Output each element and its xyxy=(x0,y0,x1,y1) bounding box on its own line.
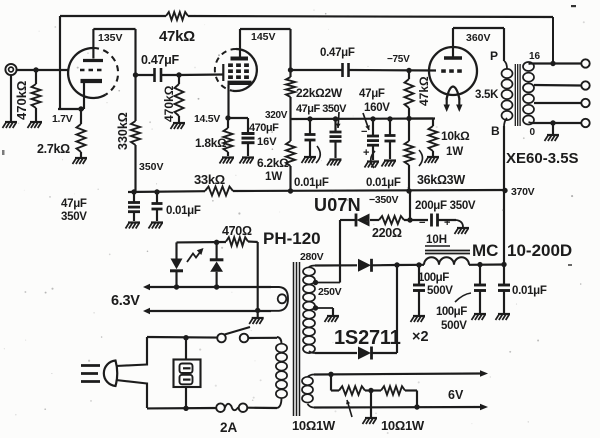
svg-text:47kΩ: 47kΩ xyxy=(159,28,195,45)
svg-text:320V: 320V xyxy=(265,110,288,121)
svg-text:16: 16 xyxy=(529,51,541,62)
svg-text:10H: 10H xyxy=(426,234,447,246)
svg-text:U07N: U07N xyxy=(314,195,361,215)
svg-text:6.2kΩ: 6.2kΩ xyxy=(257,156,289,170)
svg-text:+: + xyxy=(363,147,369,159)
svg-text:280V: 280V xyxy=(300,251,324,263)
svg-text:135V: 135V xyxy=(98,32,123,44)
svg-text:XE60-3.5S: XE60-3.5S xyxy=(506,150,579,167)
svg-text:3.5K: 3.5K xyxy=(475,89,499,101)
svg-text:0: 0 xyxy=(530,127,536,138)
svg-text:0.01μF: 0.01μF xyxy=(166,205,201,217)
svg-text:2.7kΩ: 2.7kΩ xyxy=(37,142,70,156)
svg-text:16V: 16V xyxy=(257,136,277,148)
svg-text:10Ω1W: 10Ω1W xyxy=(381,418,425,433)
svg-text:330kΩ: 330kΩ xyxy=(116,112,130,150)
svg-text:145V: 145V xyxy=(251,31,276,43)
svg-text:10Ω1W: 10Ω1W xyxy=(292,418,336,433)
svg-text:250V: 250V xyxy=(318,286,342,298)
svg-text:350V: 350V xyxy=(61,211,87,223)
svg-text:6V: 6V xyxy=(448,388,464,402)
svg-text:×2: ×2 xyxy=(412,329,429,345)
svg-text:22kΩ2W: 22kΩ2W xyxy=(296,86,343,100)
svg-text:−: − xyxy=(419,217,425,229)
svg-text:1W: 1W xyxy=(446,146,463,158)
svg-text:470kΩ: 470kΩ xyxy=(162,85,176,122)
svg-text:0.47μF: 0.47μF xyxy=(141,53,179,67)
svg-text:PH-120: PH-120 xyxy=(263,229,321,248)
svg-text:−350V: −350V xyxy=(369,194,398,206)
svg-text:470μF: 470μF xyxy=(249,122,279,134)
svg-text:100μF: 100μF xyxy=(436,306,467,318)
svg-text:1.7V: 1.7V xyxy=(52,113,73,125)
svg-text:P: P xyxy=(490,49,498,63)
svg-text:350V: 350V xyxy=(139,161,164,173)
svg-text:500V: 500V xyxy=(427,285,453,297)
svg-text:360V: 360V xyxy=(466,32,491,44)
svg-text:160V: 160V xyxy=(364,102,390,114)
svg-text:B: B xyxy=(491,124,500,138)
svg-text:10-200D: 10-200D xyxy=(507,241,572,260)
svg-text:100μF: 100μF xyxy=(418,272,449,284)
svg-text:220Ω: 220Ω xyxy=(372,226,402,240)
svg-text:14.5V: 14.5V xyxy=(194,113,220,125)
svg-text:0.01μF: 0.01μF xyxy=(294,177,329,189)
svg-text:6.3V: 6.3V xyxy=(111,293,140,309)
svg-text:−75V: −75V xyxy=(387,54,410,65)
svg-text:1S2711: 1S2711 xyxy=(334,327,401,349)
svg-text:47μF: 47μF xyxy=(61,198,87,210)
svg-text:0.01μF: 0.01μF xyxy=(366,177,401,189)
svg-text:200μF 350V: 200μF 350V xyxy=(415,200,476,212)
svg-text:2A: 2A xyxy=(220,420,238,435)
svg-text:47μF: 47μF xyxy=(359,88,385,100)
svg-text:0.47μF: 0.47μF xyxy=(320,47,355,59)
svg-text:0.01μF: 0.01μF xyxy=(512,285,547,297)
svg-text:+: + xyxy=(444,217,450,229)
svg-text:−: − xyxy=(361,126,367,138)
svg-text:MC: MC xyxy=(472,241,498,260)
svg-text:10kΩ: 10kΩ xyxy=(441,129,470,143)
svg-text:36kΩ3W: 36kΩ3W xyxy=(417,173,465,187)
svg-text:470kΩ: 470kΩ xyxy=(14,81,29,120)
svg-text:33kΩ: 33kΩ xyxy=(194,172,225,187)
svg-text:370V: 370V xyxy=(511,186,535,198)
svg-text:1W: 1W xyxy=(265,171,282,183)
svg-text:500V: 500V xyxy=(441,320,467,332)
svg-text:470Ω: 470Ω xyxy=(222,224,252,238)
svg-text:1.8kΩ: 1.8kΩ xyxy=(195,136,227,150)
svg-text:47kΩ: 47kΩ xyxy=(417,76,431,106)
